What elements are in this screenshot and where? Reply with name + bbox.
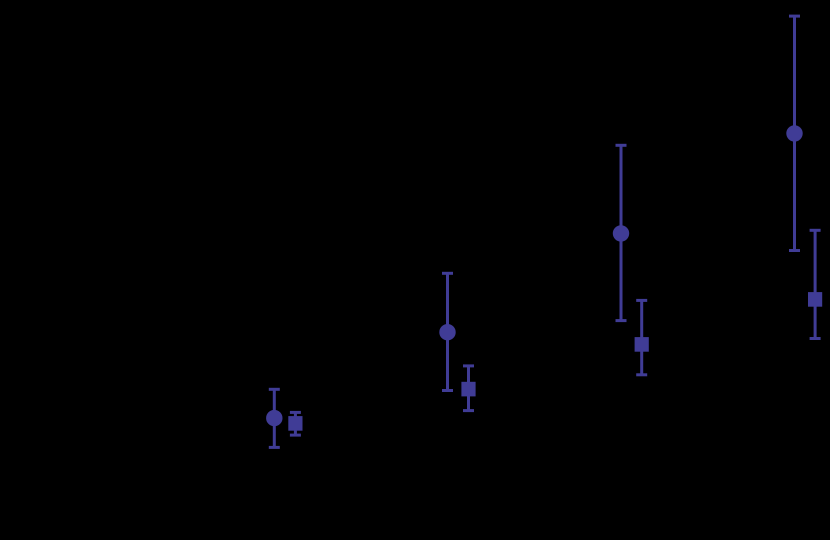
error bar bottom cap: series2 group3	[636, 373, 647, 376]
error bar bottom cap: series1 group2	[442, 389, 453, 392]
error bar bottom cap: series1 group4	[789, 249, 800, 252]
error bar top cap: series2 group4	[810, 229, 821, 232]
error bar stem: series2 group1	[294, 412, 297, 435]
error bar bottom cap: series2 group4	[810, 337, 821, 340]
error bar stem: series1 group3	[620, 145, 623, 320]
circle marker: series1 group4	[786, 125, 802, 141]
circle marker: series1 group3	[613, 225, 629, 241]
error bar stem: series1 group2	[446, 273, 449, 390]
error bar top cap: series2 group3	[636, 299, 647, 302]
square marker: series2 group1	[288, 416, 302, 431]
error bar bottom cap: series1 group3	[616, 319, 627, 322]
error bar stem: series2 group4	[814, 230, 817, 338]
circle marker: series1 group1	[266, 410, 282, 426]
error bar top cap: series1 group1	[269, 388, 280, 391]
error bar bottom cap: series2 group1	[290, 434, 301, 437]
error bar stem: series2 group2	[467, 366, 470, 411]
circle marker: series1 group2	[439, 324, 455, 340]
error bar top cap: series1 group2	[442, 272, 453, 275]
square marker: series2 group4	[808, 292, 822, 307]
square marker: series2 group3	[635, 337, 649, 352]
error bar stem: series2 group3	[640, 300, 643, 374]
error bar bottom cap: series1 group1	[269, 446, 280, 449]
error bar bottom cap: series2 group2	[463, 409, 474, 412]
error bar top cap: series2 group2	[463, 364, 474, 367]
error bar top cap: series1 group4	[789, 15, 800, 18]
error bar stem: series1 group4	[793, 16, 796, 250]
error bar top cap: series2 group1	[290, 411, 301, 414]
square marker: series2 group2	[461, 382, 475, 397]
error bar top cap: series1 group3	[616, 144, 627, 147]
error bar stem: series1 group1	[273, 389, 276, 447]
